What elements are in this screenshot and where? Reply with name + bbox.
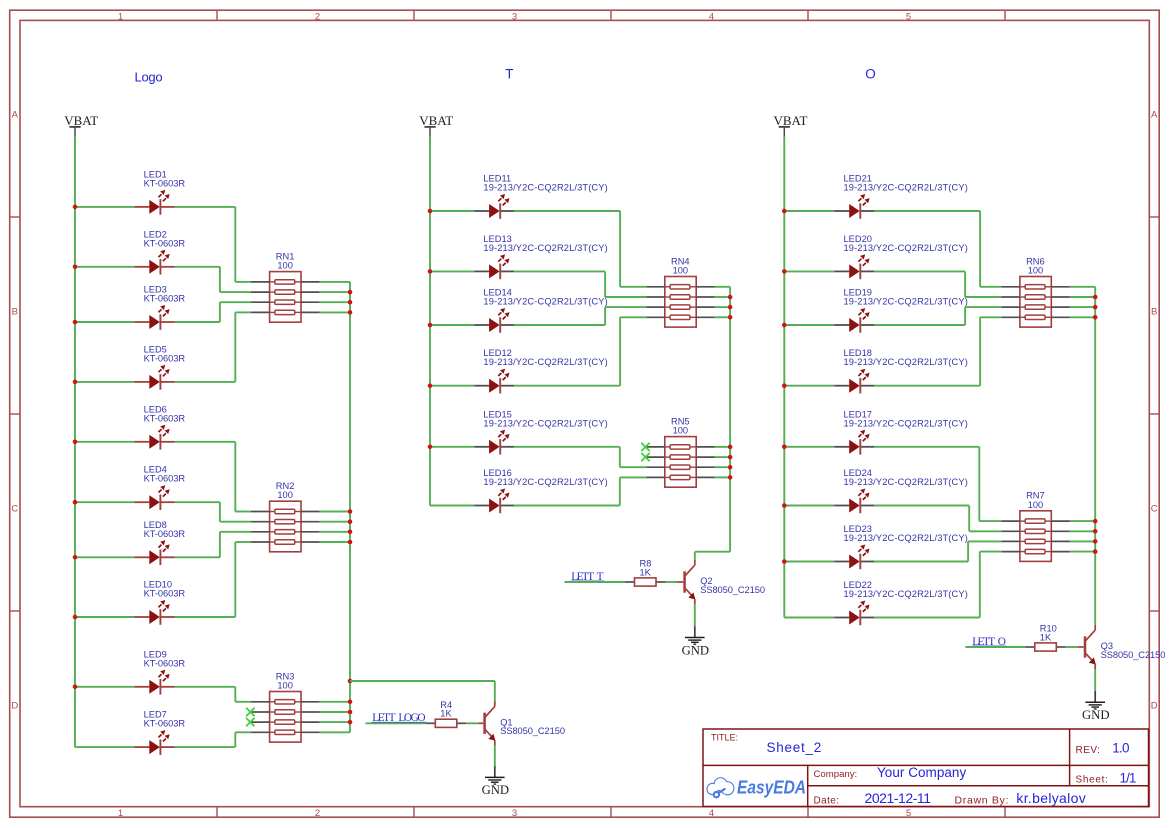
svg-text:A: A [12,110,19,121]
svg-text:19-213/Y2C-CQ2R2L/3T(CY): 19-213/Y2C-CQ2R2L/3T(CY) [844,418,968,428]
svg-text:KT-0603R: KT-0603R [144,294,186,304]
svg-text:KT-0603R: KT-0603R [144,719,186,729]
svg-text:C: C [11,504,18,515]
svg-text:19-213/Y2C-CQ2R2L/3T(CY): 19-213/Y2C-CQ2R2L/3T(CY) [844,243,968,253]
svg-text:KT-0603R: KT-0603R [144,474,186,484]
svg-text:1.0: 1.0 [1112,741,1129,756]
svg-text:100: 100 [277,490,293,500]
svg-text:VBAT: VBAT [64,113,98,128]
svg-text:Logo: Logo [135,70,163,85]
svg-text:1: 1 [118,808,123,819]
svg-text:TITLE:: TITLE: [711,733,738,743]
svg-text:100: 100 [673,266,689,276]
svg-text:19-213/Y2C-CQ2R2L/3T(CY): 19-213/Y2C-CQ2R2L/3T(CY) [483,477,607,487]
svg-text:GND: GND [482,783,510,797]
svg-text:EasyEDA: EasyEDA [737,776,806,797]
svg-text:19-213/Y2C-CQ2R2L/3T(CY): 19-213/Y2C-CQ2R2L/3T(CY) [844,183,968,193]
svg-text:O: O [865,67,876,82]
svg-text:1K: 1K [640,567,652,577]
svg-text:KT-0603R: KT-0603R [144,529,186,539]
svg-text:C: C [1151,504,1158,515]
svg-text:VBAT: VBAT [419,113,453,128]
svg-text:2: 2 [315,808,320,819]
svg-text:Company:: Company: [814,769,858,780]
svg-text:VBAT: VBAT [774,113,808,128]
svg-text:1: 1 [118,11,123,22]
svg-text:3: 3 [512,808,517,819]
svg-text:GND: GND [1082,708,1110,722]
svg-text:19-213/Y2C-CQ2R2L/3T(CY): 19-213/Y2C-CQ2R2L/3T(CY) [844,533,968,543]
svg-text:100: 100 [277,261,293,271]
svg-text:19-213/Y2C-CQ2R2L/3T(CY): 19-213/Y2C-CQ2R2L/3T(CY) [483,357,607,367]
svg-text:D: D [1151,701,1158,712]
svg-text:A: A [1151,110,1158,121]
svg-text:5: 5 [906,11,911,22]
svg-text:B: B [1151,307,1157,318]
svg-text:KT-0603R: KT-0603R [144,658,186,668]
svg-text:Sheet:: Sheet: [1076,774,1108,785]
svg-text:Drawn By:: Drawn By: [955,794,1009,806]
svg-text:B: B [12,307,18,318]
svg-text:2: 2 [315,11,320,22]
svg-text:SS8050_C2150: SS8050_C2150 [500,726,565,736]
svg-text:100: 100 [277,681,293,691]
svg-text:19-213/Y2C-CQ2R2L/3T(CY): 19-213/Y2C-CQ2R2L/3T(CY) [483,418,607,428]
svg-text:kr.belyalov: kr.belyalov [1016,790,1085,806]
svg-text:Date:: Date: [814,795,840,806]
svg-text:5: 5 [906,808,911,819]
svg-text:19-213/Y2C-CQ2R2L/3T(CY): 19-213/Y2C-CQ2R2L/3T(CY) [483,243,607,253]
svg-text:19-213/Y2C-CQ2R2L/3T(CY): 19-213/Y2C-CQ2R2L/3T(CY) [844,297,968,307]
svg-text:100: 100 [1028,500,1044,510]
svg-text:1K: 1K [440,709,452,719]
svg-text:SS8050_C2150: SS8050_C2150 [1101,650,1166,660]
svg-text:1K: 1K [1040,632,1052,642]
svg-text:D: D [11,701,18,712]
svg-text:3: 3 [512,11,517,22]
svg-text:KT-0603R: KT-0603R [144,178,186,188]
svg-text:19-213/Y2C-CQ2R2L/3T(CY): 19-213/Y2C-CQ2R2L/3T(CY) [483,297,607,307]
svg-text:4: 4 [709,11,714,22]
svg-text:19-213/Y2C-CQ2R2L/3T(CY): 19-213/Y2C-CQ2R2L/3T(CY) [483,183,607,193]
svg-text:GND: GND [682,643,710,657]
svg-text:SS8050_C2150: SS8050_C2150 [700,585,765,595]
svg-text:4: 4 [709,808,714,819]
svg-text:100: 100 [673,426,689,436]
svg-text:KT-0603R: KT-0603R [144,238,186,248]
svg-text:KT-0603R: KT-0603R [144,589,186,599]
svg-text:KT-0603R: KT-0603R [144,413,186,423]
svg-text:100: 100 [1028,266,1044,276]
svg-text:Sheet_2: Sheet_2 [767,740,822,755]
svg-text:19-213/Y2C-CQ2R2L/3T(CY): 19-213/Y2C-CQ2R2L/3T(CY) [844,357,968,367]
svg-text:19-213/Y2C-CQ2R2L/3T(CY): 19-213/Y2C-CQ2R2L/3T(CY) [844,477,968,487]
svg-text:REV:: REV: [1076,745,1100,756]
svg-text:Your Company: Your Company [877,765,966,780]
svg-text:1/1: 1/1 [1120,771,1137,786]
svg-text:19-213/Y2C-CQ2R2L/3T(CY): 19-213/Y2C-CQ2R2L/3T(CY) [844,589,968,599]
svg-text:2021-12-11: 2021-12-11 [865,790,932,806]
svg-text:T: T [505,67,513,82]
svg-text:KT-0603R: KT-0603R [144,353,186,363]
